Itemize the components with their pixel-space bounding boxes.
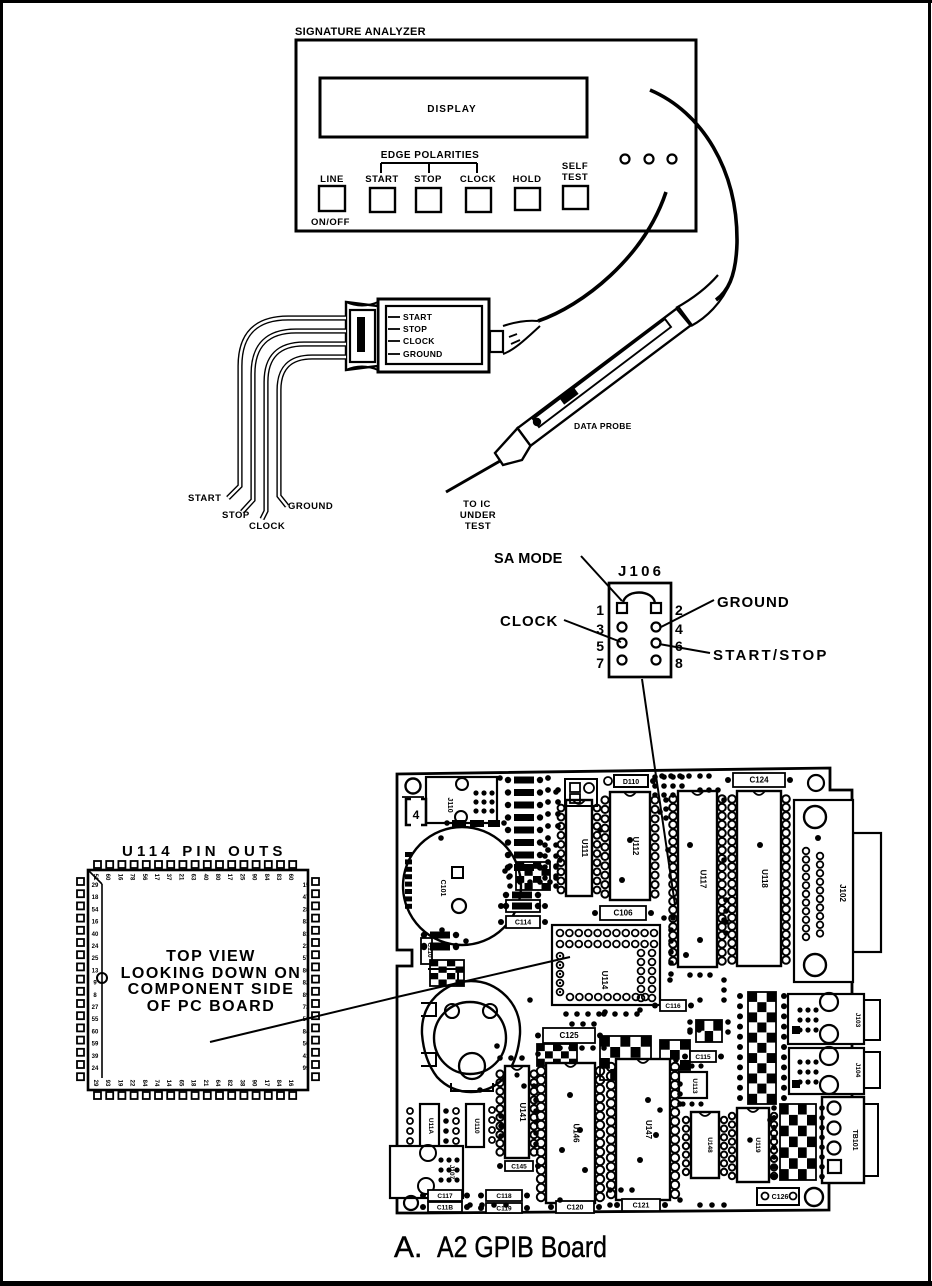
svg-text:U118: U118 (760, 869, 769, 888)
svg-text:C125: C125 (559, 1031, 579, 1040)
svg-text:17: 17 (226, 874, 232, 881)
capacitor C125 (535, 1028, 603, 1043)
svg-text:51: 51 (92, 874, 98, 881)
svg-text:C115: C115 (695, 1054, 711, 1061)
relay K101 (565, 779, 597, 806)
svg-text:COMPONENT SIDE: COMPONENT SIDE (128, 981, 295, 998)
capacitor C112 (421, 932, 459, 950)
svg-text:82: 82 (303, 981, 310, 987)
svg-text:81: 81 (303, 932, 310, 938)
capacitor C106 (592, 906, 654, 920)
svg-text:19: 19 (116, 1080, 122, 1087)
svg-text:U113: U113 (691, 1078, 698, 1094)
data probe cable (650, 90, 737, 300)
svg-text:SA MODE: SA MODE (494, 551, 563, 567)
diode D110 (604, 775, 656, 787)
svg-text:C145: C145 (511, 1164, 527, 1171)
svg-text:90: 90 (251, 1080, 257, 1087)
U114 pin outs title (122, 843, 287, 860)
svg-text:SELF: SELF (562, 161, 588, 172)
svg-text:TEST: TEST (465, 521, 491, 532)
pod cable (538, 192, 666, 321)
svg-text:15: 15 (303, 883, 310, 889)
svg-text:C120: C120 (567, 1205, 584, 1212)
button HOLD (513, 174, 542, 210)
svg-text:LINE: LINE (320, 174, 344, 185)
mounting hole top-right (808, 775, 824, 791)
svg-text:5: 5 (596, 638, 604, 654)
connector J106 label (618, 563, 664, 580)
svg-text:93: 93 (104, 1080, 110, 1087)
capacitor C124 (725, 773, 793, 787)
J106 pin 5 (618, 639, 627, 648)
capacitor C101 (large electrolytic) (403, 827, 521, 945)
svg-text:6: 6 (675, 638, 683, 654)
svg-text:C124: C124 (749, 776, 769, 785)
via cluster right-center (661, 897, 729, 1107)
capacitor C113 (498, 900, 548, 928)
svg-text:C101: C101 (439, 880, 446, 897)
svg-text:74: 74 (153, 1080, 159, 1087)
svg-text:CLOCK: CLOCK (403, 336, 435, 346)
display window (320, 78, 587, 137)
resistor R110 R111 (421, 842, 559, 950)
leader line J106 to U117 (over board) (655, 769, 675, 905)
svg-text:LOOKING DOWN ON: LOOKING DOWN ON (121, 965, 302, 982)
resistor R112 row (557, 1011, 640, 1051)
svg-text:J107: J107 (448, 1165, 455, 1180)
button STOP (414, 174, 442, 212)
svg-text:DATA PROBE: DATA PROBE (574, 421, 632, 431)
svg-text:J110: J110 (446, 797, 453, 812)
svg-text:64: 64 (214, 1080, 220, 1087)
svg-text:21: 21 (177, 874, 183, 881)
svg-text:STOP: STOP (222, 510, 250, 521)
connector J110 top-left (426, 777, 497, 823)
terminal block TB101 (822, 1097, 878, 1183)
IC U114 package outline with pins (77, 861, 319, 1099)
svg-text:16: 16 (287, 1080, 293, 1087)
svg-text:29: 29 (92, 1080, 98, 1087)
capacitor C145 (497, 1161, 541, 1171)
svg-text:TEST: TEST (562, 172, 588, 183)
mounting hole top-left (402, 779, 424, 798)
svg-text:59: 59 (92, 1042, 99, 1048)
edge polarities label and bracket (381, 150, 480, 173)
svg-text:25: 25 (92, 956, 99, 962)
U114 pin1 marker (88, 870, 107, 1078)
svg-text:18: 18 (190, 1080, 196, 1087)
transistor Q101 (TO-3) (421, 969, 520, 1092)
svg-text:4: 4 (413, 808, 420, 822)
IC U11A (407, 1104, 459, 1147)
resistor pack R103 (537, 1036, 690, 1080)
data probe label (574, 421, 632, 431)
svg-text:40: 40 (202, 874, 208, 881)
svg-text:89: 89 (303, 993, 310, 999)
connector J106 on board (652, 774, 685, 798)
svg-text:13: 13 (92, 968, 99, 974)
svg-text:39: 39 (92, 1054, 99, 1060)
svg-text:A.: A. (394, 1231, 422, 1264)
wire label START (188, 493, 221, 504)
svg-text:82: 82 (226, 1080, 232, 1087)
wire label STOP (222, 510, 250, 521)
mounting hole bottom-left (404, 1196, 418, 1210)
mounting hole bottom-right (805, 1188, 823, 1206)
svg-text:84: 84 (141, 1080, 147, 1087)
IC U111 (558, 800, 601, 896)
svg-text:41: 41 (303, 1054, 310, 1060)
svg-text:23: 23 (303, 944, 310, 950)
START/STOP label with leader (659, 644, 829, 664)
resistor network RP2 (small) (687, 1019, 731, 1042)
wire label GROUND (288, 501, 333, 512)
svg-text:CLOCK: CLOCK (500, 613, 558, 630)
svg-text:90: 90 (251, 874, 257, 881)
signature analyzer front panel (296, 40, 696, 231)
svg-text:80: 80 (303, 968, 310, 974)
capacitor bank C107-C109 (503, 879, 553, 909)
svg-text:84: 84 (263, 874, 269, 881)
svg-text:A2 GPIB Board: A2 GPIB Board (437, 1231, 607, 1264)
svg-text:C116: C116 (665, 1003, 681, 1010)
svg-text:8: 8 (675, 655, 683, 671)
svg-text:CLOCK: CLOCK (249, 521, 285, 532)
svg-text:U111: U111 (580, 839, 589, 858)
svg-text:4: 4 (675, 621, 683, 637)
IC U148 (683, 1112, 727, 1178)
svg-text:37: 37 (165, 874, 171, 881)
connector J106 body (609, 583, 671, 677)
leader line U114 diagram to U114 socket (over board) (397, 957, 570, 997)
svg-text:UNDER: UNDER (460, 510, 496, 521)
CLOCK label with leader (500, 613, 621, 642)
wire START (228, 318, 346, 498)
svg-text:80: 80 (214, 874, 220, 881)
SA MODE label (494, 551, 622, 601)
leader line U114 to board (left) (210, 997, 397, 1042)
J106 pin 1 (617, 603, 627, 613)
connector J102 (794, 800, 881, 982)
svg-text:17: 17 (153, 874, 159, 881)
svg-text:25: 25 (238, 874, 244, 881)
wire STOP (242, 331, 346, 512)
svg-text:22: 22 (129, 1080, 135, 1087)
IC U118 (728, 791, 790, 966)
capacitor C126 (757, 1188, 799, 1205)
svg-text:U146: U146 (572, 1123, 581, 1143)
svg-text:16: 16 (92, 920, 99, 926)
svg-text:99: 99 (303, 1066, 310, 1072)
signature analyzer label (295, 26, 426, 38)
J106 pin 8 (652, 656, 661, 665)
svg-text:START: START (365, 174, 398, 185)
bottom edge vias (467, 1187, 727, 1208)
wire label CLOCK (249, 521, 285, 532)
svg-text:84: 84 (303, 1029, 310, 1035)
to ic under test label (460, 499, 496, 532)
wire CLOCK (262, 344, 346, 519)
svg-text:U11A: U11A (427, 1118, 434, 1135)
capacitor C120 C121 (548, 1199, 668, 1213)
svg-text:17: 17 (263, 1080, 269, 1087)
resistor row R104 below J110 (444, 820, 507, 827)
svg-text:63: 63 (190, 874, 196, 881)
pod signal labels (388, 312, 443, 359)
svg-text:C106: C106 (613, 909, 633, 918)
IC U141 (496, 1066, 537, 1158)
svg-text:83: 83 (275, 874, 281, 881)
J106 pin 2 (651, 603, 661, 613)
svg-text:C118: C118 (496, 1193, 512, 1200)
svg-text:27: 27 (92, 1005, 99, 1011)
J106 pin numbers right (675, 602, 683, 671)
svg-text:START: START (188, 493, 221, 504)
svg-text:J102: J102 (838, 884, 847, 902)
capacitor C115 C116 (652, 1000, 724, 1062)
svg-text:7: 7 (596, 655, 604, 671)
connector J104 (788, 993, 880, 1044)
resistor network RP3 (771, 1104, 825, 1180)
svg-text:STOP: STOP (403, 324, 427, 334)
vias (477, 775, 773, 1208)
caption A. A2 GPIB Board (394, 1231, 607, 1264)
GROUND label with leader (661, 594, 790, 627)
svg-text:TB101: TB101 (851, 1129, 858, 1150)
svg-text:16: 16 (116, 874, 122, 881)
button SELF TEST (562, 161, 588, 209)
svg-text:C11B: C11B (437, 1205, 454, 1212)
svg-text:U114 PIN OUTS: U114 PIN OUTS (122, 843, 287, 860)
svg-text:73: 73 (303, 1005, 310, 1011)
IC U147 (607, 1059, 679, 1200)
svg-text:OF PC BOARD: OF PC BOARD (147, 998, 276, 1015)
svg-text:U117: U117 (699, 870, 708, 889)
J106 pin 6 (652, 639, 661, 648)
socket U114 on board (552, 925, 660, 1027)
svg-text:56: 56 (141, 874, 147, 881)
svg-text:U114: U114 (600, 971, 609, 990)
IC U113 (679, 1063, 707, 1106)
data probe body (446, 275, 731, 492)
svg-text:U110: U110 (473, 1118, 480, 1134)
svg-text:24: 24 (92, 944, 99, 950)
svg-text:47: 47 (303, 895, 310, 901)
svg-text:START/STOP: START/STOP (713, 647, 829, 664)
connector J107 (390, 1145, 463, 1198)
svg-text:18: 18 (92, 895, 99, 901)
svg-text:38: 38 (238, 1080, 244, 1087)
pod cable exit tab (490, 321, 540, 354)
svg-text:C121: C121 (633, 1203, 650, 1210)
svg-text:65: 65 (177, 1080, 183, 1087)
indicator lights (621, 155, 677, 164)
svg-text:J103: J103 (854, 1013, 861, 1028)
svg-text:40: 40 (92, 932, 99, 938)
svg-text:24: 24 (92, 1066, 99, 1072)
via cluster bottom-center (497, 1055, 539, 1147)
svg-text:START: START (403, 312, 433, 322)
resistor pack R102 (430, 960, 464, 986)
button START (365, 174, 398, 212)
capacitor C117 C118 (420, 1190, 530, 1213)
bracket mark [4] (406, 799, 426, 825)
svg-text:SIGNATURE ANALYZER: SIGNATURE ANALYZER (295, 26, 426, 38)
svg-text:60: 60 (104, 874, 110, 881)
button LINE (319, 174, 345, 211)
svg-text:C117: C117 (437, 1193, 453, 1200)
svg-text:DISPLAY: DISPLAY (427, 104, 476, 115)
svg-text:U141: U141 (518, 1102, 527, 1122)
svg-text:U148: U148 (706, 1137, 713, 1153)
svg-text:55: 55 (92, 1017, 99, 1023)
svg-text:56: 56 (303, 1042, 310, 1048)
svg-text:TOP VIEW: TOP VIEW (166, 948, 256, 965)
svg-text:J106: J106 (618, 563, 664, 580)
J106 jumper arc (623, 593, 655, 604)
J106 pin 3 (618, 623, 627, 632)
resistor network RP1 (tall) (737, 992, 787, 1104)
capacitor C110 label (421, 938, 433, 964)
leader line J106 to board (upper) (642, 679, 655, 769)
IC U110 (466, 1104, 504, 1147)
J106 pin numbers left (596, 602, 604, 671)
U114 pin numbers (92, 874, 310, 1087)
timing pod body (378, 299, 489, 372)
svg-text:C126: C126 (772, 1194, 789, 1201)
resistor pack R101 (507, 862, 559, 890)
svg-text:U119: U119 (754, 1137, 761, 1153)
svg-text:STOP: STOP (414, 174, 442, 185)
svg-text:GROUND: GROUND (288, 501, 333, 512)
ON/OFF label (311, 217, 350, 228)
capacitor bank C102-C105 (505, 775, 561, 871)
svg-text:TO IC: TO IC (463, 499, 491, 510)
svg-text:83: 83 (303, 920, 310, 926)
svg-text:ON/OFF: ON/OFF (311, 217, 350, 228)
J106 pin 7 (618, 656, 627, 665)
svg-text:57: 57 (303, 956, 310, 962)
svg-text:J104: J104 (854, 1063, 861, 1078)
svg-text:1: 1 (596, 602, 604, 618)
svg-text:HOLD: HOLD (513, 174, 542, 185)
svg-text:78: 78 (129, 874, 135, 881)
connector pads P101 (659, 773, 721, 821)
wire GROUND (279, 357, 346, 506)
svg-text:GROUND: GROUND (403, 349, 443, 359)
svg-text:54: 54 (92, 907, 99, 913)
svg-text:CLOCK: CLOCK (460, 174, 496, 185)
svg-text:29: 29 (92, 883, 99, 889)
IC U146 (537, 1063, 604, 1203)
svg-text:C114: C114 (515, 920, 531, 927)
svg-text:84: 84 (275, 1080, 281, 1087)
svg-text:14: 14 (165, 1080, 171, 1087)
J106 pin 4 (652, 623, 661, 632)
A2 GPIB board outline (397, 768, 852, 1213)
pod left connector (346, 302, 378, 370)
IC U117 (669, 791, 726, 967)
U114 center note (121, 948, 302, 1015)
via field center (668, 927, 727, 1003)
svg-text:60: 60 (287, 874, 293, 881)
button CLOCK (460, 174, 496, 212)
svg-text:GROUND: GROUND (717, 594, 790, 611)
svg-text:EDGE POLARITIES: EDGE POLARITIES (381, 150, 480, 161)
connector J105 (789, 1047, 880, 1094)
C101 polarity marks (405, 852, 412, 909)
svg-text:21: 21 (202, 1080, 208, 1087)
IC U112 (601, 792, 658, 900)
IC U119 (729, 1108, 777, 1182)
svg-text:D110: D110 (623, 779, 639, 786)
svg-text:28: 28 (303, 907, 310, 913)
svg-text:60: 60 (92, 1029, 99, 1035)
svg-text:U147: U147 (644, 1120, 653, 1140)
